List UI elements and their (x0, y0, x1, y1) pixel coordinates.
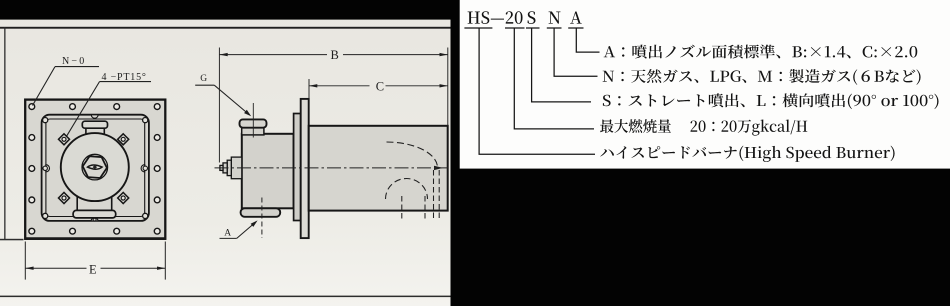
inner square corner holes (43, 118, 148, 219)
dimension E extension lines (24, 242, 26, 280)
bottom pipe stub neck (77, 196, 112, 211)
top black scan bar (0, 0, 460, 20)
hub ring (294, 114, 301, 221)
dimension B line (219, 54, 327, 56)
frame short bottom-left line (0, 239, 24, 241)
vertical black divider strip (451, 0, 460, 306)
row 4: capacity (600, 119, 807, 136)
svg-text:A: A (224, 229, 231, 239)
title A (570, 11, 582, 23)
inner rounded square (burner mounting ring) (42, 115, 149, 221)
svg-text:G: G (200, 74, 207, 84)
center nozzle ring (82, 154, 108, 180)
svg-text:E: E (89, 262, 97, 276)
bottom-right black block (460, 169, 950, 306)
scanned drawing background (0, 0, 452, 306)
title underlines (464, 27, 583, 29)
svg-text:C: C (376, 80, 384, 94)
front view: square mounting plate (25, 100, 165, 239)
plate bottom thick edge (25, 237, 167, 240)
dimension C line (309, 85, 370, 87)
frame top border line (0, 27, 451, 29)
title S (528, 11, 536, 24)
dimension E line with arrows (25, 267, 86, 269)
center hex nut (83, 156, 107, 178)
frame bottom border line (0, 296, 451, 298)
G pipe stub cap (240, 119, 267, 127)
model code title HS-20 (468, 11, 523, 24)
bottom stub dashed centerline (261, 198, 263, 239)
burner front circle (61, 133, 129, 201)
row 5: name (600, 146, 894, 162)
hidden gas path: large dashed arc (387, 142, 438, 168)
right text panel background (452, 0, 950, 306)
hidden inlet dashed arc (386, 178, 428, 199)
title N (549, 12, 561, 24)
row 2: N spec (603, 69, 921, 85)
flange plate (side) (301, 99, 309, 238)
burner tube (309, 126, 448, 211)
main centerline (215, 167, 448, 169)
mid-edge tab holes (46, 165, 50, 172)
bottom stub A (241, 208, 281, 217)
svg-text:B: B (331, 48, 339, 62)
hidden pipe dashed verticals (402, 170, 439, 219)
row 1: A spec (604, 44, 918, 58)
dimension C extension (308, 79, 310, 99)
top pipe stub neck (86, 128, 104, 140)
G pipe stub neck (242, 127, 264, 134)
flow arrowhead (434, 166, 443, 170)
plate bolt holes (29, 104, 160, 234)
side view: burner body block (242, 134, 294, 209)
top pipe stub flange (82, 121, 107, 128)
stub G centerline (252, 103, 254, 138)
bottom pipe stub flange (73, 210, 116, 218)
clamp squares with holes (58, 134, 69, 145)
dimension B extension lines (218, 48, 220, 163)
frame left border line (4, 27, 5, 239)
svg-text:N−0: N−0 (62, 56, 86, 67)
inner offset line (46, 119, 145, 217)
pilot nozzle stack (220, 157, 242, 179)
eye-shaped orifice (88, 165, 103, 169)
leader verticals and horizontals (479, 28, 599, 154)
row 3: S spec (603, 93, 939, 109)
